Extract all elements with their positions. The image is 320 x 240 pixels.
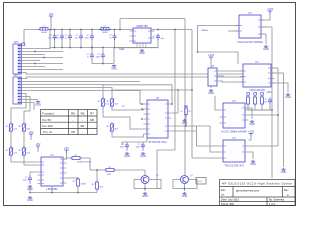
wire flag stub A	[30, 137, 32, 140]
wire JP2 pin9	[22, 103, 35, 111]
svg-text:Doc: Doc	[221, 189, 226, 192]
svg-text:GND: GND	[182, 121, 188, 125]
svg-text:600R: 600R	[102, 32, 108, 34]
wire C4 top	[80, 30, 82, 34]
microcontroller U6	[144, 96, 172, 144]
wire gate vcc stem	[210, 60, 212, 68]
line driver U3	[240, 60, 275, 92]
wire C5b top	[91, 30, 93, 34]
svg-text:-: -	[73, 124, 74, 128]
oscillator buffer U2	[236, 11, 265, 44]
wire gate to driver pin	[220, 81, 243, 82]
svg-text:74LVC1GX04 100MHz: 74LVC1GX04 100MHz	[237, 40, 264, 44]
svg-text:0R: 0R	[81, 124, 85, 128]
svg-text:47R: 47R	[107, 174, 111, 176]
resistor R13	[96, 180, 99, 191]
wire C2 top	[61, 30, 63, 34]
wire OCXO out right	[245, 109, 272, 111]
pad on JP1 pin1	[22, 43, 25, 46]
junction x197 y52	[197, 51, 199, 53]
wire R9 to opamp	[67, 177, 79, 178]
wire bottom ground rail	[30, 192, 97, 194]
wire 3V3 feed top	[120, 18, 185, 20]
wire C12 bottom	[269, 104, 271, 110]
power flag +5V rail	[49, 16, 53, 19]
capacitor C5	[90, 53, 94, 60]
capacitor C12	[268, 98, 272, 105]
wire corner link x196	[196, 126, 198, 131]
svg-text:GND: GND	[35, 103, 41, 107]
transistor Q1	[141, 176, 149, 184]
svg-text:600R: 600R	[41, 32, 47, 34]
ground driver	[286, 93, 290, 95]
wire JP2 pin3	[22, 84, 104, 86]
wire R5 bottom run	[103, 108, 130, 124]
svg-text:By: Sweeney: By: Sweeney	[269, 198, 285, 202]
ground buffer U2	[264, 45, 268, 47]
wire Q1 left loop	[134, 180, 145, 189]
wire JP1 pin7	[22, 63, 64, 65]
svg-text:0R: 0R	[71, 130, 75, 134]
options table	[41, 110, 98, 135]
wire Q2 left loop	[173, 180, 185, 189]
wire vertical x283	[283, 73, 285, 167]
svg-text:GND: GND	[208, 91, 214, 95]
svg-text:U?: U?	[255, 60, 259, 64]
wire opamp cap branch	[30, 172, 38, 176]
wire R2 to opamp in	[11, 157, 38, 162]
wire Q1 emitter down	[144, 184, 146, 192]
svg-text:+3V3: +3V3	[266, 92, 272, 94]
wire vertical x278	[277, 68, 279, 146]
svg-text:100n: 100n	[23, 180, 29, 182]
pad P2	[254, 93, 257, 96]
wire JP1 pin8	[22, 66, 46, 68]
junction x192 y90	[191, 89, 193, 91]
svg-text:10MHz: 10MHz	[201, 30, 208, 32]
ground JP2	[36, 101, 40, 103]
power flag divider B	[36, 146, 40, 149]
svg-text:-: -	[82, 118, 83, 122]
wire C2 bottom	[61, 40, 63, 48]
wire to MCU pin 129	[130, 124, 144, 129]
resistor R5 divider	[101, 97, 105, 108]
resistor R10 pull	[247, 95, 250, 106]
wire small IC to driver	[220, 70, 243, 72]
wire horizontal net y90	[112, 89, 192, 91]
wire bus net A to buffer IC	[22, 73, 244, 75]
svg-text:100n: 100n	[263, 102, 269, 104]
power flag divider A	[29, 134, 33, 137]
resistor R1 divider	[9, 122, 13, 133]
svg-text:U?: U?	[156, 96, 160, 100]
ground rail	[28, 196, 32, 198]
connector JP2 aux	[13, 73, 22, 104]
wire from JP1 pin1 to input filter	[24, 30, 38, 45]
svg-text:-: -	[73, 118, 74, 122]
wire OCXO gnd link	[249, 108, 253, 119]
ground C11	[141, 152, 145, 154]
wire vertical x157 down	[156, 150, 158, 189]
capacitor C1 input	[53, 34, 57, 41]
wire buffer pin2 stub	[228, 30, 239, 32]
svg-text:GND: GND	[281, 170, 287, 174]
svg-text:U?: U?	[232, 136, 236, 140]
wire C7 top	[114, 30, 116, 34]
power flag U5	[249, 134, 253, 137]
svg-text:100n: 100n	[55, 38, 61, 40]
junction y90	[177, 89, 179, 91]
svg-text:F-control: F-control	[42, 112, 54, 116]
svg-text:100n: 100n	[96, 57, 102, 59]
wire lower ground rail	[92, 59, 114, 64]
title block	[220, 180, 296, 206]
wire R13 bottom	[96, 191, 98, 193]
wire Q2 emitter down	[184, 184, 186, 192]
svg-text:100n: 100n	[85, 38, 91, 40]
resistor R6 divider	[110, 97, 114, 108]
svg-text:+5V: +5V	[49, 12, 54, 16]
svg-text:JP?: JP?	[14, 73, 19, 77]
wire to Q1	[116, 169, 145, 171]
svg-text:100n: 100n	[136, 147, 142, 149]
wire R6 to MCU	[112, 108, 144, 110]
svg-text:1k0R(rev5mR): 1k0R(rev5mR)	[77, 161, 91, 164]
svg-text:U?: U?	[211, 64, 215, 68]
wire R11 bottom	[254, 106, 256, 110]
schematic frame border	[4, 3, 296, 206]
ground gate U4	[209, 89, 213, 91]
wire C8 bottom to ground rail	[114, 40, 158, 48]
resistor R12 pull	[261, 95, 264, 106]
ground star mid	[182, 119, 186, 121]
svg-text:GND: GND	[119, 48, 125, 51]
wire OCXO in stub	[215, 109, 220, 111]
regulator bottom pins	[137, 43, 146, 48]
capacitor C11 MCU	[141, 143, 145, 150]
wire bus net B to buffer IC	[22, 77, 244, 79]
svg-text:Date: July 2015: Date: July 2015	[221, 198, 240, 202]
wire R13 top to net	[96, 170, 98, 182]
wire long vertical net x185	[184, 19, 186, 175]
capacitor C6	[101, 53, 105, 60]
wire OCXO pin to x278	[249, 114, 279, 116]
svg-text:GND: GND	[140, 154, 146, 158]
capacitor C9 opamp	[28, 176, 32, 183]
wire R7 top	[111, 122, 113, 124]
svg-text:74LVC2G125: 74LVC2G125	[249, 88, 265, 92]
svg-text:R5: R5	[71, 112, 75, 116]
ground OCXO 1	[250, 120, 254, 122]
ground right bus	[281, 168, 285, 170]
capacitor C7 reg input	[113, 34, 117, 41]
wire R7 bottom to MCU	[112, 133, 144, 137]
wire pull resistor down	[185, 117, 187, 126]
capacitor C4	[79, 34, 83, 41]
junction x272 OCXO	[271, 109, 273, 111]
power flag gate	[209, 57, 213, 60]
svg-text:GND: GND	[263, 47, 269, 51]
resistor R4 divider	[22, 146, 26, 157]
wire MCU to U5 b	[210, 126, 220, 152]
svg-text:no:: no:	[221, 193, 225, 196]
wire x157 join Q1	[157, 188, 161, 190]
svg-text:GND: GND	[285, 95, 291, 99]
wire JP1 pin5	[22, 57, 64, 59]
ground C10	[125, 152, 129, 154]
svg-text:U?: U?	[50, 153, 54, 157]
OCXO X1	[220, 99, 249, 134]
svg-text:0R: 0R	[90, 118, 94, 122]
wire buffer vcc	[261, 14, 270, 20]
gate U4	[208, 64, 220, 86]
wire rail right drop	[113, 48, 115, 64]
wire Q2 right loop	[185, 180, 198, 189]
power flag +3V3 buffer	[268, 11, 272, 14]
resistor R14 output	[104, 169, 116, 172]
junction MCU pin1	[171, 103, 173, 105]
capacitor C5b	[90, 34, 94, 41]
wire gate gnd stub	[210, 86, 212, 88]
wire R8 out down	[82, 158, 90, 170]
wire buffer output	[261, 26, 272, 28]
svg-text:+3V3: +3V3	[267, 7, 274, 11]
wire R3 to R4	[23, 133, 25, 148]
resistor R11 pull	[254, 95, 257, 106]
resistor R8 feedback	[70, 157, 82, 160]
wire U5 gnd link	[249, 152, 254, 159]
wire C9 to rail	[29, 186, 31, 193]
junction pull on net	[185, 125, 187, 127]
resistor R2 divider	[9, 146, 13, 157]
svg-text:+3V3: +3V3	[208, 53, 215, 57]
output pad box	[196, 178, 206, 185]
svg-text:OCXO 10MHz MV89A: OCXO 10MHz MV89A	[221, 130, 247, 134]
svg-text:GND: GND	[27, 198, 33, 202]
wire gate pin stub	[220, 75, 224, 77]
wire C6 bottom	[102, 59, 104, 64]
wire net x192 to U5 c	[192, 157, 220, 159]
power flag pull-up	[184, 105, 188, 107]
wire power flag stem	[50, 19, 52, 30]
svg-text:GND: GND	[139, 51, 145, 55]
ground power input	[112, 65, 116, 67]
wire JP1 pin9	[22, 69, 64, 71]
svg-text:1 of 1: 1 of 1	[269, 202, 276, 206]
svg-text:R7: R7	[90, 112, 94, 116]
inductor L1 input ferrite	[38, 28, 50, 31]
wire R12 bottom	[261, 106, 263, 110]
resistor R9	[77, 177, 80, 188]
pad P1	[247, 93, 250, 96]
ground Q1	[143, 192, 147, 194]
voltage regulator U1	[130, 24, 155, 43]
svg-text:74LVC1G04 3V3: 74LVC1G04 3V3	[224, 164, 244, 168]
wire U5 vcc	[249, 137, 252, 141]
wire JP1 pin6	[22, 60, 41, 62]
connector JP1 host interface	[13, 40, 22, 74]
junction reg output	[157, 29, 159, 31]
wire C7 bottom	[114, 40, 116, 48]
wire opamp out run	[90, 169, 104, 171]
wire driver gnd drop	[271, 83, 288, 92]
svg-text:GND: GND	[142, 194, 148, 198]
svg-text:-5 to +5: -5 to +5	[42, 130, 52, 134]
svg-text:GND: GND	[124, 154, 130, 158]
svg-text:HP 53131/132 OC10 High Stabili: HP 53131/132 OC10 High Stability Option	[222, 181, 292, 185]
wire resistor top A	[102, 97, 104, 99]
wire opamp vcc	[63, 153, 67, 159]
svg-text:U?: U?	[248, 11, 252, 15]
svg-text:gerrysweeney.com: gerrysweeney.com	[236, 189, 260, 193]
svg-text:Rev: Rev	[284, 189, 289, 192]
wire y84.8 drop to MCU	[171, 85, 173, 104]
wire R4 to opamp in2	[24, 157, 38, 165]
capacitor C2 input	[60, 34, 64, 41]
wire JP2 pin8 to ground	[22, 99, 39, 101]
svg-text:GND: GND	[111, 67, 117, 71]
wire horizontal net y84.8	[103, 84, 172, 86]
ground U5	[251, 160, 255, 162]
wire 3V3 drop	[119, 19, 121, 30]
svg-text:+5V: +5V	[64, 146, 69, 150]
wire JP2 pin6 to divider A	[11, 94, 26, 123]
wire ground rail under caps	[50, 47, 158, 49]
wire y52 link to driver	[198, 52, 239, 64]
wire C4 bottom	[80, 40, 82, 48]
wire JP2 pin5 to MCU	[22, 91, 144, 105]
resistor R15 pull-up	[185, 106, 188, 117]
wire JP1 pin3	[22, 51, 64, 53]
wire C6 top	[102, 48, 104, 53]
svg-text:R6: R6	[81, 112, 85, 116]
op-amp U7	[38, 153, 67, 191]
wire C1 top	[54, 30, 56, 34]
inductor L2 ferrite	[99, 28, 111, 31]
svg-text:-: -	[92, 124, 93, 128]
wire vertical net x197	[197, 26, 199, 53]
wire C11 gnd stub	[142, 149, 144, 151]
wire R9 bottom stub	[77, 186, 79, 193]
svg-text:+5V: +5V	[29, 130, 34, 134]
svg-text:JP?: JP?	[14, 40, 19, 44]
resistor R3 divider	[22, 122, 26, 133]
svg-text:U?: U?	[232, 99, 236, 103]
wire regulator output rail	[151, 29, 192, 31]
svg-text:-: -	[92, 130, 93, 134]
wire drop x103	[102, 85, 104, 98]
svg-text:0 to 5V: 0 to 5V	[42, 118, 51, 122]
wire Q1 right loop	[145, 180, 161, 189]
wire buffer gnd	[261, 34, 266, 44]
svg-text:0 to 10V: 0 to 10V	[42, 124, 53, 128]
svg-text:GND: GND	[182, 194, 188, 198]
wire C10 gnd stub	[126, 149, 128, 151]
svg-text:ATTINY24-SSU: ATTINY24-SSU	[148, 140, 166, 144]
wire long vertical net x175	[174, 30, 176, 151]
wire MCU bottom to rail	[146, 138, 148, 142]
wire JP1 pin2	[22, 48, 51, 49]
wire long vertical x272 output	[271, 27, 273, 178]
wire elbow x175 to x157	[157, 149, 175, 151]
svg-text:GND: GND	[249, 122, 255, 126]
wire C9 gnd stub	[29, 182, 31, 184]
wire JP1 pin4	[22, 54, 46, 56]
wire MCU to buffer b	[172, 125, 210, 127]
wire MCU to U5 a	[197, 131, 220, 146]
transistor Q2	[181, 176, 189, 184]
wire C1 bottom	[54, 40, 56, 48]
buffer U5	[220, 136, 249, 168]
ground C9	[28, 185, 32, 187]
wire R1 to R2	[10, 133, 12, 148]
svg-text:-: -	[82, 130, 83, 134]
capacitor C10 MCU	[125, 143, 129, 150]
wire Q1 top stub	[144, 170, 146, 176]
svg-text:53131_BW: 53131_BW	[221, 202, 234, 206]
wire C5b bottom	[91, 40, 93, 48]
wire cluster1 left drop	[49, 30, 51, 48]
wire +12V rail to regulator input	[50, 29, 133, 31]
wire driver out1	[271, 67, 278, 69]
svg-text:+3V3: +3V3	[248, 130, 255, 134]
junction +12V rail / flag	[50, 29, 52, 31]
resistor R7	[110, 122, 114, 133]
svg-text:OUT: OUT	[198, 181, 203, 183]
wire driver out2	[271, 72, 284, 74]
pad P3	[261, 93, 264, 96]
wire JP2 pin2 long	[22, 81, 141, 83]
wire opamp bottom	[51, 186, 53, 193]
svg-text:ADM7150: ADM7150	[136, 24, 148, 28]
wire long vertical net x192	[191, 30, 193, 159]
wire cap drop a	[121, 142, 123, 145]
wire cap rail under MCU	[122, 141, 147, 143]
capacitor C8 reg output	[156, 34, 160, 41]
wire MCU pin to net y90	[172, 90, 178, 113]
svg-text:100n: 100n	[120, 147, 126, 149]
ground Q2	[182, 192, 186, 194]
svg-text:GND: GND	[250, 162, 256, 166]
wire flag stub B	[37, 149, 39, 152]
capacitor C3	[68, 34, 72, 41]
wire JP2 pin4 drop x112	[22, 88, 113, 98]
wire JP2 pin7 to divider B	[22, 97, 31, 123]
wire resistor bottoms	[248, 106, 270, 110]
wire to buffer input	[198, 25, 240, 27]
power flag opamp	[64, 150, 68, 153]
wire MCU to buffer a	[172, 130, 197, 132]
svg-text:+5V: +5V	[36, 142, 41, 146]
wire C3 bottom	[69, 40, 71, 48]
wire U5 out to x278	[249, 145, 279, 147]
wire C3 top	[69, 30, 71, 34]
svg-text:100R: 100R	[80, 184, 86, 186]
wire OCXO elbow up	[214, 96, 216, 110]
junction x175 on rail	[174, 29, 176, 31]
ground regulator	[140, 49, 144, 51]
